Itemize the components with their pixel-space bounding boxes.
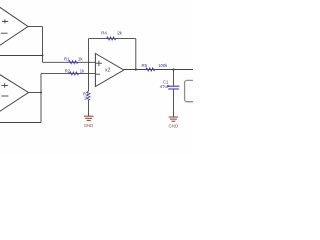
ground GND (right) bbox=[169, 117, 179, 129]
op-amp x2 bbox=[95, 54, 123, 87]
svg-text:1k: 1k bbox=[80, 68, 85, 73]
junction bbox=[42, 55, 44, 57]
wire: down to C1 bbox=[173, 70, 175, 86]
wire: rail A into x2 + input bbox=[43, 61, 96, 63]
svg-text:R4: R4 bbox=[101, 30, 107, 35]
ground GND (left) bbox=[84, 116, 94, 128]
op-amp U1B (lower-left, clipped at left edge) bbox=[0, 74, 29, 113]
svg-text:R5: R5 bbox=[142, 63, 148, 68]
wire: feedback/ground vertical at x=88.5 bbox=[88, 39, 90, 116]
resistor R4 bbox=[101, 30, 122, 40]
resistor R2 bbox=[65, 68, 85, 75]
svg-text:100k: 100k bbox=[158, 63, 168, 68]
wire: x2 output to right edge bbox=[124, 69, 193, 71]
svg-text:1k: 1k bbox=[78, 56, 83, 61]
op-amp U1A (top-left, clipped at left edge) bbox=[0, 6, 28, 47]
capacitor C1 bbox=[160, 79, 180, 89]
wire: R4 right vertical down to output bbox=[135, 39, 137, 70]
wire: R4 feedback top run bbox=[89, 38, 136, 40]
junction at C1 tap bbox=[172, 68, 174, 70]
resistor R1 bbox=[64, 56, 83, 63]
svg-text:R1: R1 bbox=[64, 56, 70, 61]
wire: U1B output stub bbox=[29, 92, 42, 94]
svg-text:47uF: 47uF bbox=[160, 84, 170, 89]
wire: U1A output stub bbox=[28, 26, 43, 28]
connector J1 (clipped at right edge) bbox=[185, 80, 199, 101]
wire: U1B output vertical (up to rail B, down to feedback) bbox=[40, 74, 42, 123]
wire: U1A output vertical drop bbox=[42, 27, 44, 63]
junction bbox=[135, 68, 137, 70]
wire: C1 to ground bbox=[173, 90, 175, 117]
wire: rail B into x2 - input bbox=[41, 73, 95, 75]
wire: U1A feedback run to left edge bbox=[0, 55, 43, 57]
svg-text:GND: GND bbox=[169, 124, 179, 129]
svg-text:R2: R2 bbox=[65, 68, 71, 73]
junction bbox=[40, 92, 42, 94]
wire: U1B feedback run to left edge bbox=[0, 122, 41, 124]
svg-text:2k: 2k bbox=[117, 30, 122, 35]
svg-text:x2: x2 bbox=[105, 68, 111, 74]
resistor R5 bbox=[142, 63, 169, 71]
svg-text:GND: GND bbox=[84, 123, 94, 128]
resistor R3 (vertical to ground) bbox=[83, 91, 90, 100]
